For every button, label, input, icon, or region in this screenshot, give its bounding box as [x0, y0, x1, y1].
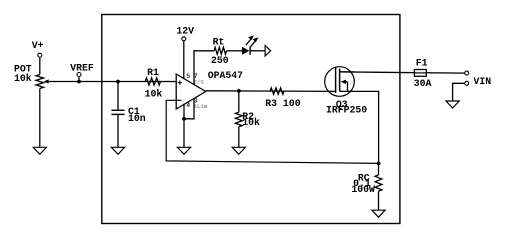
wire junction to C1 [117, 82, 119, 111]
svg-text:E/S: E/S [193, 78, 204, 85]
wire MOSFET source right and down [340, 91, 379, 163]
wire op-amp output to MOSFET gate [206, 90, 336, 93]
svg-text:R3 100: R3 100 [265, 98, 300, 109]
node V+ [32, 40, 44, 57]
wire MOSFET drain to F1 and VIN [340, 72, 465, 73]
resistor Rt 250 [211, 37, 229, 66]
svg-text:12V: 12V [176, 26, 194, 37]
wire C1 to ground [117, 114, 119, 147]
wire 12V to op-amp pin 5 [183, 41, 185, 79]
ground (R2) [232, 147, 245, 154]
svg-text:R1: R1 [147, 67, 159, 78]
op-amp U1 OPA547 [176, 70, 243, 109]
LED D1 [242, 35, 258, 55]
junction source/feedback/RC [377, 162, 381, 166]
resistor R1 10k [145, 67, 163, 100]
svg-text:V+: V+ [32, 40, 44, 51]
fuse F1 30A [414, 58, 432, 90]
svg-text:F1: F1 [416, 58, 428, 69]
svg-text:VIN: VIN [474, 76, 492, 87]
resistor R3 100 [265, 88, 300, 109]
svg-text:250: 250 [211, 55, 229, 66]
junction R2 [237, 89, 241, 93]
svg-text:IRFP250: IRFP250 [326, 104, 367, 115]
ground (op-amp) [177, 147, 190, 154]
node 12V supply [176, 26, 194, 41]
resistor R2 10k [235, 91, 260, 148]
resistor RC 0.1 100W [351, 163, 381, 210]
ground (C1) [111, 147, 124, 154]
ground (POT) [33, 147, 46, 154]
ground (RC) [372, 210, 385, 217]
junction C1/VREF line [116, 80, 120, 84]
svg-text:10k: 10k [14, 73, 32, 84]
svg-text:10k: 10k [242, 117, 260, 128]
svg-text:10n: 10n [128, 113, 146, 124]
node VREF [70, 62, 94, 83]
circuit boundary box [102, 15, 400, 224]
node VIN terminals [465, 71, 492, 87]
wire op-amp pin 7 up [194, 51, 214, 85]
svg-text:10k: 10k [145, 89, 163, 100]
wire Rt to LED [227, 50, 243, 52]
svg-text:4: 4 [186, 102, 190, 109]
wire VIN lower terminal to ground [453, 83, 465, 101]
wire LED to port [250, 50, 265, 52]
transistor Q3 IRFP250 (N-MOSFET) [325, 67, 368, 116]
wire pin 3 down-left [184, 98, 194, 118]
wire pin 4 down [183, 104, 185, 147]
svg-text:VREF: VREF [70, 62, 94, 73]
wire V+ to POT [39, 57, 41, 74]
wire POT wiper to VREF and into box [48, 81, 177, 83]
svg-text:Rt: Rt [213, 37, 225, 48]
wire inverting input feedback [166, 100, 378, 163]
capacitor C1 10n [111, 106, 145, 124]
svg-text:ILim: ILim [193, 103, 207, 110]
junction pins 3-4 [182, 117, 186, 121]
svg-text:100W: 100W [351, 184, 375, 195]
svg-text:30A: 30A [414, 78, 432, 89]
svg-text:5: 5 [186, 73, 190, 80]
ground (VIN) [446, 101, 459, 108]
output port arrow [265, 46, 271, 56]
potentiometer POT 10k [14, 64, 49, 89]
wire POT bottom to ground [39, 89, 41, 148]
svg-text:OPA547: OPA547 [208, 70, 243, 81]
